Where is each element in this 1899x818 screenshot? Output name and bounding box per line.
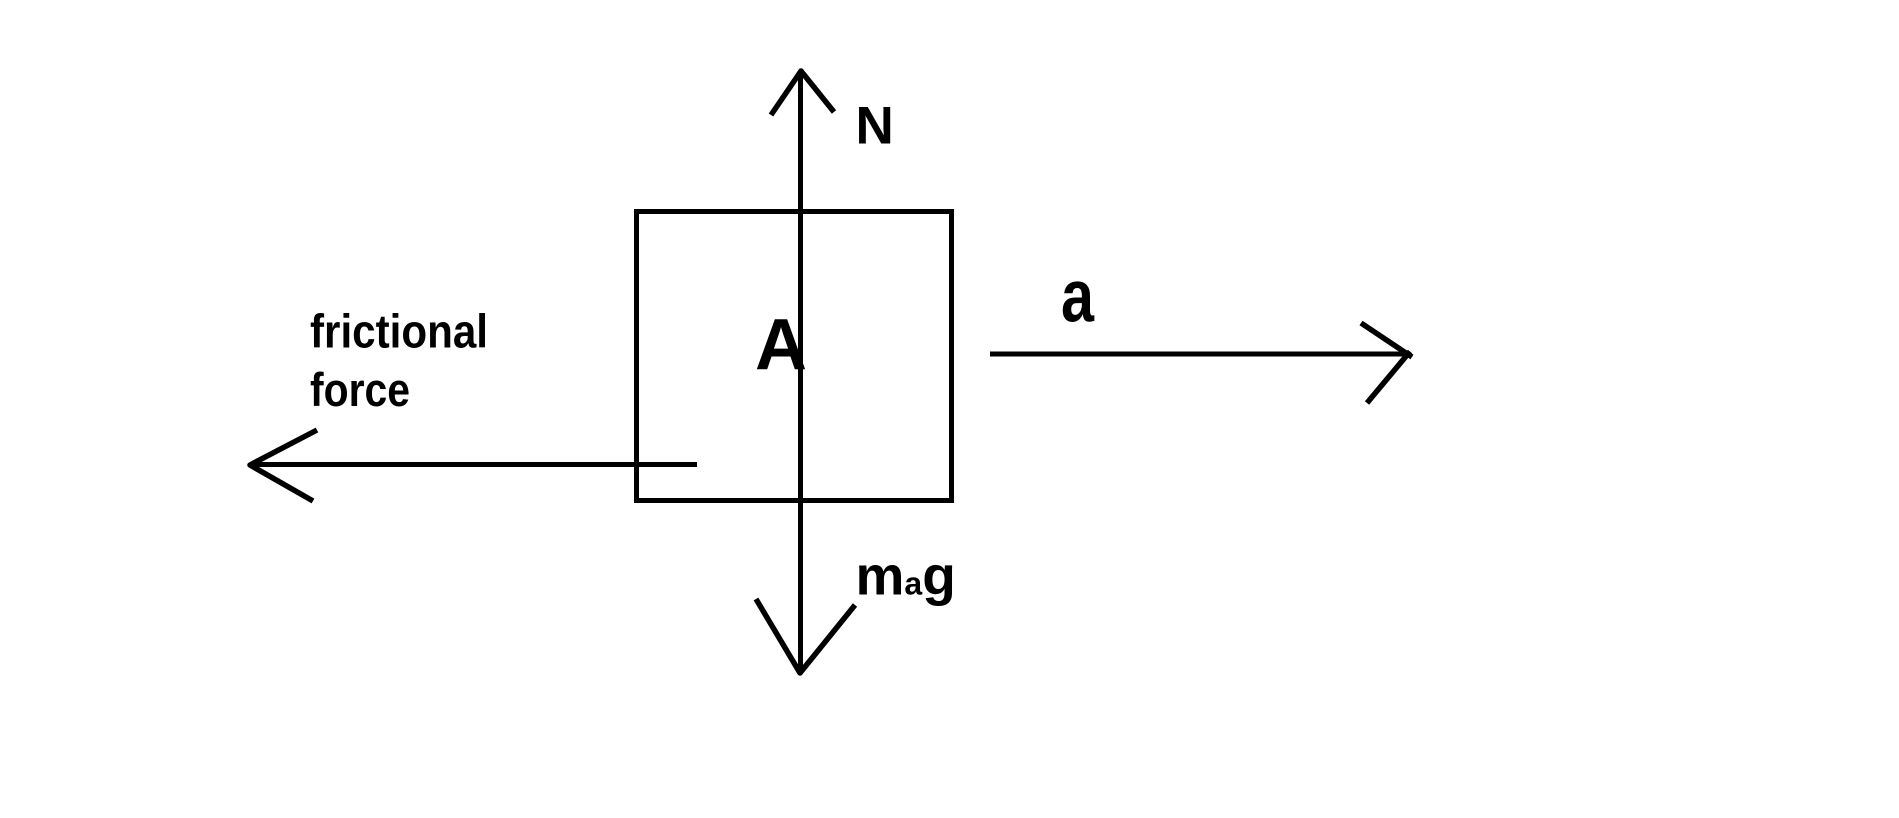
- wire: vertical force line through block (N up, mag down): [798, 73, 803, 671]
- arrowhead a lower wing (right): [1367, 352, 1410, 404]
- arrowhead mag (down): [756, 599, 855, 673]
- arrowhead frictional force (left): [250, 430, 317, 501]
- svg-text:force: force: [310, 363, 410, 416]
- frictional force arrow shaft (leftward): [251, 462, 697, 467]
- arrowhead a upper wing (right): [1361, 323, 1412, 357]
- svg-text:frictional: frictional: [310, 305, 488, 358]
- acceleration arrow shaft (rightward): [990, 352, 1406, 357]
- block A (square outline): [637, 212, 952, 501]
- arrowhead N (up): [771, 71, 834, 115]
- svg-text:mag: mag: [856, 545, 956, 607]
- svg-text:a: a: [1061, 255, 1095, 338]
- svg-text:N: N: [856, 97, 894, 156]
